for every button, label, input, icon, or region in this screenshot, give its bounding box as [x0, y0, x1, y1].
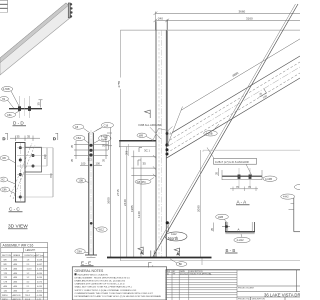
flag A right	[174, 248, 180, 256]
svg-text:4-H12: 4-H12	[237, 238, 245, 242]
rod splice bolt	[166, 221, 169, 224]
svg-text:70: 70	[236, 185, 239, 189]
svg-text:DRAW ANCHOR BOLTS / HOLES 18+: DRAW ANCHOR BOLTS / HOLES 18+ (2) DIA 0.…	[75, 280, 126, 283]
svg-text:2755: 2755	[117, 80, 121, 87]
base marks E-E	[85, 254, 97, 256]
svg-text:GRADE: GRADE	[13, 254, 21, 257]
dim arrow line 3 at column	[131, 175, 155, 177]
left viewport extension line	[119, 30, 121, 261]
column center dash-dot	[160, 30, 162, 257]
svg-text:B0: B0	[179, 262, 183, 266]
A-A plate	[222, 175, 262, 177]
column left flange	[155, 21, 157, 257]
callout oval 4-10B on brace	[204, 131, 218, 136]
gusset weld tick	[168, 127, 173, 131]
base plate ticks	[150, 251, 152, 258]
svg-text:INDICATES WELD LOCATION: INDICATES WELD LOCATION	[78, 273, 108, 276]
top dim line 3660	[155, 12, 300, 14]
column web dashed	[158, 32, 160, 255]
svg-text:10B: 10B	[78, 179, 83, 183]
svg-text:3C ]: 3C ]	[88, 158, 93, 162]
callout oval H2B	[216, 214, 229, 219]
svg-text:0.034: 0.034	[37, 273, 43, 275]
brace band: bottom edge	[167, 78, 301, 158]
right extension tick below ground	[201, 258, 203, 266]
A-A bolt 1	[238, 175, 241, 179]
dim extension perpendicular at work point	[167, 107, 183, 147]
bolt leader cross lines	[17, 155, 47, 157]
leader	[11, 91, 20, 107]
rod top flange stripe 3D	[0, 3, 69, 63]
A-A left dim 35	[217, 168, 219, 176]
svg-text:35: 35	[215, 171, 219, 175]
left dim stack: outer dim line	[126, 147, 128, 258]
dim ticks 3160	[154, 19, 158, 22]
svg-text:C16: C16	[104, 124, 109, 127]
A-A bottom dim line	[230, 188, 258, 190]
callout oval H2	[0, 97, 8, 102]
svg-text:B - B: B - B	[226, 248, 236, 253]
svg-text:760: 760	[49, 173, 53, 178]
partial member horizontal	[294, 231, 300, 233]
flag A left	[138, 247, 144, 255]
svg-text:PROJECT/CLIENT: PROJECT/CLIENT	[238, 288, 255, 290]
svg-text:ISSUED FOR APPROVAL: ISSUED FOR APPROVAL	[190, 273, 212, 276]
svg-text:LENGTH (ea): LENGTH (ea)	[25, 255, 38, 257]
bolts E-E top	[89, 144, 92, 147]
callout oval C8A (D-D)	[5, 112, 16, 117]
E-E elevation view	[73, 123, 114, 258]
callout oval 10B mid-left	[76, 178, 85, 183]
svg-text:4-10B: 4-10B	[265, 177, 272, 181]
leader from note box	[246, 164, 252, 176]
leader from note box to separator	[207, 148, 214, 159]
dim tick left 3660	[154, 12, 158, 15]
svg-text:1/11/2004: 1/11/2004	[180, 274, 188, 276]
svg-text:1985: 1985	[130, 205, 134, 212]
svg-text:35: 35	[27, 134, 31, 138]
dim arrow line 1 at column	[131, 156, 155, 158]
svg-text:35: 35	[102, 143, 106, 147]
viewport bottom border (light)	[120, 260, 300, 262]
callout oval C8 (F5)	[135, 179, 151, 184]
svg-text:3660: 3660	[239, 9, 246, 13]
svg-text:North: North	[168, 236, 179, 241]
svg-text:35: 35	[210, 227, 214, 231]
left dim line 3	[140, 158, 142, 258]
svg-text:C - C: C - C	[9, 207, 20, 212]
svg-text:240: 240	[158, 16, 163, 20]
svg-text:W8: W8	[139, 133, 143, 137]
svg-text:2440: 2440	[123, 199, 127, 206]
svg-text:4-10B: 4-10B	[206, 131, 213, 135]
weld oval W8	[137, 133, 147, 137]
revision table grid	[166, 270, 237, 300]
member center line	[90, 130, 92, 257]
ASSEMBLY table	[1, 243, 48, 300]
svg-text:35: 35	[17, 134, 21, 138]
sloped dim line 4800	[181, 39, 300, 110]
bolts on end plate 3D	[70, 3, 72, 5]
title block right part	[237, 270, 300, 300]
svg-text:C8A: C8A	[7, 114, 12, 117]
center line mid	[24, 98, 26, 116]
svg-text:FW8 ALL AROUND: FW8 ALL AROUND	[139, 123, 162, 127]
rod body 3D	[0, 3, 71, 75]
dim 255 under beam	[128, 144, 130, 156]
svg-text:70: 70	[248, 185, 251, 189]
3D isometric view of rod assembly (top-left)	[0, 3, 73, 75]
right side extension line	[199, 150, 201, 257]
svg-text:E - E: E - E	[81, 261, 91, 266]
callout oval C8A bottom	[0, 187, 9, 192]
callout oval 4-10B right of A-A	[263, 176, 277, 181]
main plate rectangle	[16, 143, 26, 203]
svg-text:SECTION: SECTION	[2, 255, 11, 257]
svg-text:100: 100	[96, 162, 101, 166]
column right flange	[165, 30, 167, 257]
svg-text:0.052: 0.052	[37, 291, 43, 293]
mini table top-left corner	[0, 0, 8, 12]
callout oval C8A top-left	[74, 135, 85, 140]
svg-text:ASSY-20: ASSY-20	[13, 294, 22, 297]
svg-text:SHALL BUTT WELDS TO BE FULL PE: SHALL BUTT WELDS TO BE FULL PENETRATION …	[75, 286, 132, 289]
svg-text:C8A: C8A	[76, 136, 81, 140]
callout oval 4-H12 below	[234, 237, 250, 242]
tick marks	[289, 208, 294, 210]
svg-text:0.25x7 (L7) H.D.S ANCHOR: 0.25x7 (L7) H.D.S ANCHOR	[215, 160, 249, 164]
svg-text:35: 35	[70, 158, 74, 162]
leader	[8, 100, 15, 109]
gusset plate outline	[153, 129, 169, 147]
callout oval C8 clevis left	[73, 124, 84, 129]
svg-text:D: D	[3, 136, 6, 141]
brace band: center dash-dot	[167, 67, 300, 147]
callout oval W12 right	[96, 227, 107, 232]
svg-text:4-H2: 4-H2	[283, 195, 289, 199]
svg-text:D: D	[105, 136, 108, 141]
svg-text:WT (ea): WT (ea)	[37, 255, 45, 257]
flag 3C on column	[139, 148, 150, 153]
svg-text:-0.194: -0.194	[37, 295, 44, 297]
callout oval C16 upper-right	[101, 123, 113, 128]
channel shape	[225, 222, 254, 232]
brace band: top edge	[172, 56, 300, 133]
dim line 3600	[109, 128, 111, 258]
svg-text:CHANGES 4TH CATEGORY UP TO NOM: CHANGES 4TH CATEGORY UP TO NOM = 1.25 D	[75, 283, 125, 286]
svg-text:1240: 1240	[137, 211, 141, 218]
svg-text:0.048: 0.048	[37, 259, 43, 261]
dim tick 35	[40, 100, 42, 108]
weld flag E	[145, 110, 151, 118]
tie rod second line	[160, 4, 296, 240]
svg-text:0.136: 0.136	[37, 268, 43, 270]
rod end plate 3D	[68, 3, 70, 18]
member double vertical	[88, 133, 90, 255]
svg-text:0.034: 0.034	[37, 277, 43, 279]
extension line work point (heavy)	[166, 20, 168, 147]
svg-text:WR16: WR16	[2, 295, 8, 297]
bolts C-C	[19, 146, 22, 149]
center line bolt 1	[19, 96, 21, 118]
svg-text:C8A: C8A	[77, 249, 82, 253]
svg-text:3600: 3600	[106, 197, 110, 204]
svg-text:GENERAL NOTES: GENERAL NOTES	[75, 269, 104, 273]
tie rod double line	[153, 4, 299, 258]
right dim chain verticals	[46, 148, 48, 166]
svg-text:2090: 2090	[197, 205, 201, 212]
details area left border (light)	[202, 150, 204, 152]
partial oval top edge	[294, 185, 303, 190]
svg-text:A: A	[238, 228, 240, 232]
top dim line C-C	[10, 137, 40, 139]
svg-text:DETERMINATION TO AND YOU THAT: DETERMINATION TO AND YOU THAT HOLD (2) I…	[75, 295, 162, 298]
arrow dims left	[74, 144, 88, 146]
GENERAL NOTES box	[72, 267, 166, 300]
D-D section view	[0, 87, 43, 119]
partial member vertical	[293, 198, 295, 232]
svg-text:COMBINATION AND THE OTHER 7 US: COMBINATION AND THE OTHER 7 USE IN ACCOR…	[75, 292, 154, 295]
svg-text:35: 35	[102, 158, 106, 162]
callout oval 4-H2 right edge	[281, 194, 295, 199]
callout oval 4-H2B	[2, 87, 13, 92]
side plate L profile	[25, 147, 42, 172]
svg-text:36 LAKE VISTA DRIVE: 36 LAKE VISTA DRIVE	[264, 292, 300, 297]
B-B dim 35	[213, 223, 215, 232]
svg-text:DATE: DATE	[180, 270, 186, 273]
svg-text:0.067: 0.067	[37, 264, 43, 266]
svg-text:736.2: 736.2	[25, 295, 31, 297]
callout oval B0 below base	[176, 262, 187, 267]
horizontal beam left	[119, 140, 156, 142]
svg-text:100: 100	[81, 162, 86, 166]
North callout oval	[165, 232, 187, 241]
slope indicator 35/100	[257, 89, 269, 101]
svg-text:H2B: H2B	[218, 215, 223, 219]
member horizontal line	[9, 108, 42, 110]
callout oval C8A bottom-left	[75, 249, 85, 254]
separator line above details (light)	[203, 149, 300, 151]
ground line (thick)	[107, 257, 212, 259]
callout oval W6 left	[0, 156, 9, 161]
level line (light gray)	[120, 29, 300, 31]
svg-text:35: 35	[37, 102, 41, 106]
bolt row center line	[19, 143, 21, 201]
svg-text:D - D: D - D	[13, 121, 24, 126]
extension line left short	[154, 12, 156, 31]
callout oval 4-H2B North top-right	[99, 135, 111, 142]
svg-text:LENGTH: LENGTH	[26, 249, 36, 252]
svg-text:D: D	[53, 136, 56, 141]
clevis V lines top	[84, 128, 91, 133]
svg-text:0.035: 0.035	[37, 286, 43, 288]
svg-text:35: 35	[70, 144, 74, 148]
callout oval left 2	[0, 177, 8, 182]
anchor note box	[214, 158, 257, 164]
svg-text:DETAIL NUMBER : HOLES DRN FOR: DETAIL NUMBER : HOLES DRN FOR EACH BOLTS…	[75, 276, 131, 279]
svg-text:ASSEMBLY WR C16: ASSEMBLY WR C16	[3, 244, 34, 248]
svg-text:3160: 3160	[246, 16, 253, 20]
small dim marks below top detail	[80, 165, 88, 167]
center line bolt 2	[29, 96, 31, 118]
brace band: hidden dashed lower	[167, 73, 301, 153]
svg-text:A - A: A - A	[237, 200, 248, 205]
base flag L below ground	[149, 263, 152, 268]
svg-text:0.075: 0.075	[37, 282, 43, 284]
svg-text:4-H2B: 4-H2B	[3, 88, 10, 91]
notes bullet	[75, 273, 77, 275]
svg-text:W12: W12	[99, 228, 105, 232]
hidden brace dashed diagonal	[10, 143, 32, 197]
C-C section view	[0, 133, 58, 202]
bolt 2	[28, 106, 31, 111]
svg-text:C8 (F5): C8 (F5)	[137, 180, 146, 184]
svg-text:2715: 2715	[116, 189, 120, 196]
svg-text:35: 35	[143, 162, 147, 166]
svg-text:SUPPLY 1 ERECTION 1.5 (5) ALL: SUPPLY 1 ERECTION 1.5 (5) ALL INTERNAL C…	[75, 289, 138, 292]
svg-text:3C ]: 3C ]	[144, 149, 150, 153]
brace band: hidden dashed upper	[170, 62, 300, 140]
beam end tick	[118, 140, 120, 147]
title block top border	[166, 269, 300, 271]
work point bolts on column flange	[166, 132, 169, 135]
svg-text:190: 190	[43, 154, 47, 159]
top dim line 3160	[155, 19, 300, 21]
flag F 35 on column	[138, 160, 146, 166]
arrow dims right	[94, 144, 108, 146]
left dim line 2	[133, 151, 135, 258]
svg-text:C8A: C8A	[2, 189, 7, 192]
B-B bolt cross	[222, 226, 230, 228]
dim arrow line 2 at column	[131, 167, 155, 169]
A-A bolt 2	[249, 175, 252, 179]
bolt 1	[18, 106, 21, 111]
